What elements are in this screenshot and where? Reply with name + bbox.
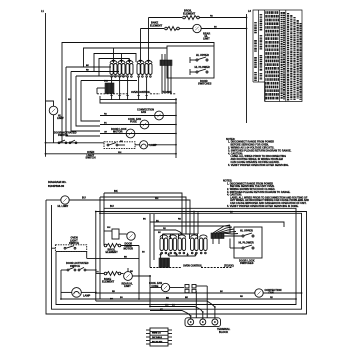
svg-text:(T/C/OK): (T/C/OK): [162, 91, 172, 94]
svg-text:HL LIMIT: HL LIMIT: [58, 204, 69, 208]
svg-text:BU: BU: [82, 196, 86, 200]
svg-text:WH: WH: [155, 198, 159, 200]
svg-text:SWITCH: SWITCH: [58, 133, 68, 137]
svg-text:BK RD WH: BK RD WH: [152, 341, 163, 343]
svg-text:5. VERIFY PROPER OPERATION AFT: 5. VERIFY PROPER OPERATION AFTER SERVICI…: [228, 164, 289, 167]
svg-text:SWITCHES: SWITCHES: [198, 82, 212, 86]
svg-text:LAMP: LAMP: [150, 143, 158, 147]
svg-text:BK: BK: [114, 189, 118, 193]
svg-text:WIRE CO: WIRE CO: [152, 332, 161, 334]
svg-text:8104P598-60: 8104P598-60: [48, 184, 65, 188]
svg-text:SWITCH: SWITCH: [69, 241, 79, 245]
svg-text:ELEMENT: ELEMENT: [150, 23, 163, 27]
svg-text:HL PLOWER: HL PLOWER: [195, 65, 210, 69]
svg-text:DIAGRAM NO.: DIAGRAM NO.: [48, 180, 67, 184]
svg-text:BLOCK: BLOCK: [219, 330, 228, 334]
svg-text:ELEMENT: ELEMENT: [102, 280, 115, 284]
svg-text:OVEN CONTROL: OVEN CONTROL: [183, 265, 203, 268]
svg-text:FAN: FAN: [141, 110, 146, 114]
svg-text:MOTOR: MOTOR: [113, 129, 123, 133]
svg-text:MOTOR: MOTOR: [124, 247, 134, 251]
svg-text:LIMIT: LIMIT: [57, 116, 64, 120]
svg-text:SWITCH: SWITCH: [86, 155, 96, 159]
svg-text:HL UPPER: HL UPPER: [240, 229, 253, 233]
svg-text:OVEN CONTROL: OVEN CONTROL: [131, 91, 151, 94]
svg-text:FUSE: FUSE: [152, 284, 159, 288]
svg-text:WH: WH: [118, 152, 122, 154]
svg-text:WH: WH: [165, 305, 169, 307]
svg-text:LAMP: LAMP: [83, 293, 91, 297]
svg-text:FAN: FAN: [269, 290, 274, 294]
svg-text:LIMIT: LIMIT: [203, 37, 210, 41]
svg-text:DLB: DLB: [104, 81, 109, 83]
svg-text:FUSE: FUSE: [130, 119, 137, 123]
svg-text:SWITCHES: SWITCHES: [240, 261, 254, 265]
svg-text:LIMIT: LIMIT: [124, 284, 131, 288]
svg-text:SWITCH: SWITCH: [70, 264, 80, 268]
svg-text:WH: WH: [107, 227, 111, 229]
svg-text:ELEMENT: ELEMENT: [183, 11, 196, 15]
svg-text:HL UPPER: HL UPPER: [196, 53, 209, 57]
svg-text:ELEMENT: ELEMENT: [106, 250, 119, 254]
svg-text:(T/C/OK): (T/C/OK): [224, 265, 234, 268]
svg-text:HL PLOWER: HL PLOWER: [239, 241, 254, 245]
svg-text:5. VERIFY PROPER OPERATION AFT: 5. VERIFY PROPER OPERATION AFTER SERVICI…: [227, 205, 299, 208]
svg-text:BU: BU: [110, 204, 114, 208]
svg-text:DE TABLE: DE TABLE: [152, 336, 163, 339]
